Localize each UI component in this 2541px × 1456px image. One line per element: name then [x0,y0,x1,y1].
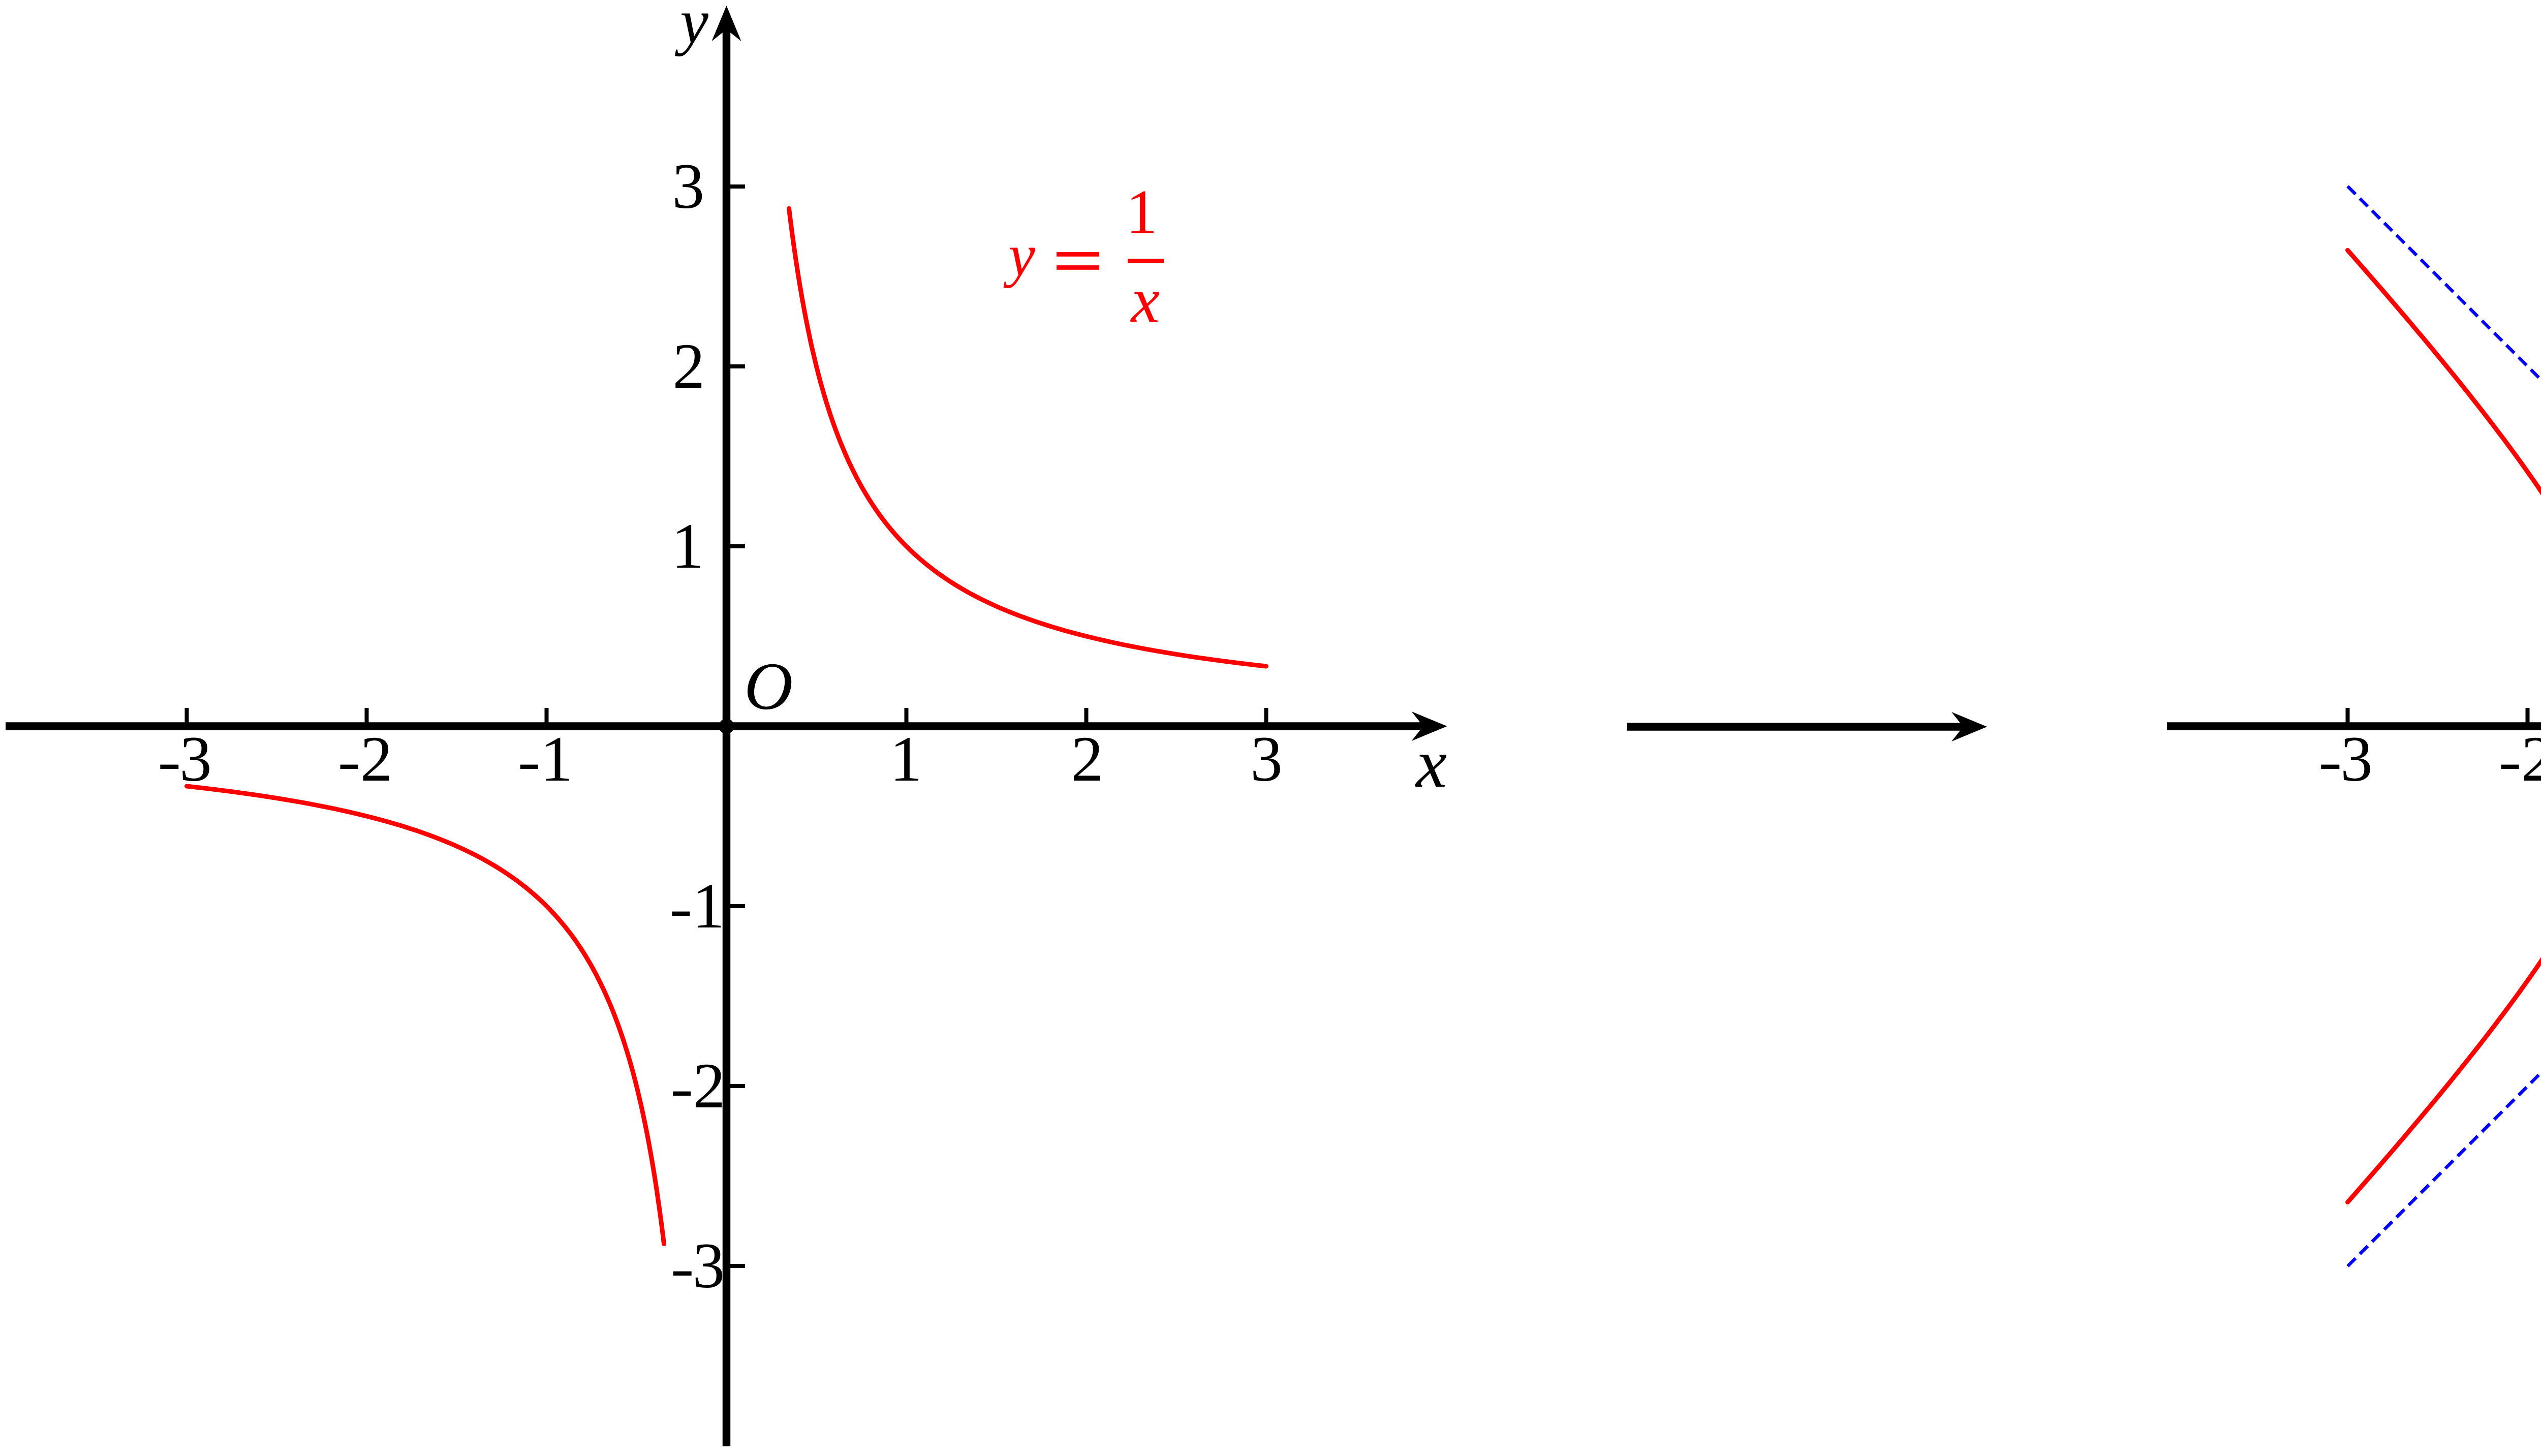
svg-text:3: 3 [1250,724,1283,795]
svg-text:1: 1 [692,871,725,942]
svg-text:2: 2 [693,1050,726,1122]
svg-text:2: 2 [1071,724,1104,795]
svg-text:3: 3 [672,151,705,222]
svg-text:2: 2 [673,331,705,402]
svg-text:O: O [744,648,793,724]
svg-text:y: y [674,0,708,57]
svg-text:1: 1 [890,724,922,795]
svg-text:3: 3 [2340,724,2373,795]
svg-text:1: 1 [1126,177,1158,246]
svg-text:y: y [1003,222,1035,289]
svg-text:x: x [1415,725,1447,802]
svg-text:3: 3 [693,1230,725,1302]
svg-text:3: 3 [179,724,212,795]
svg-text:x: x [1130,265,1160,336]
svg-text:2: 2 [2521,724,2541,795]
svg-text:1: 1 [541,724,573,795]
svg-text:2: 2 [360,724,393,795]
svg-text:1: 1 [671,511,704,582]
